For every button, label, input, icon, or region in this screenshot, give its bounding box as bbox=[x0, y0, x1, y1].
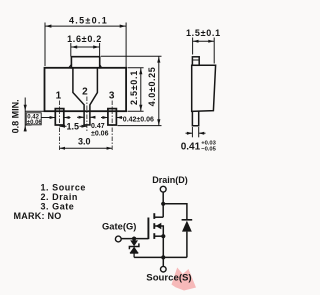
svg-text:1. Source: 1. Source bbox=[41, 182, 86, 192]
side view: body bbox=[192, 65, 216, 111]
svg-text:0.47: 0.47 bbox=[91, 123, 105, 130]
centerline lead 3 bbox=[111, 101, 113, 152]
side view: 1.5±0.1 dimension bbox=[193, 38, 215, 64]
svg-text:−0.05: −0.05 bbox=[201, 146, 216, 152]
svg-text:Drain(D): Drain(D) bbox=[152, 175, 188, 185]
svg-text:Gate(G): Gate(G) bbox=[102, 220, 136, 231]
side view: 0.41 dimension bbox=[186, 127, 206, 137]
svg-text:1: 1 bbox=[56, 90, 62, 101]
MOSFET source stub bbox=[154, 235, 163, 237]
body diode D1 bbox=[182, 219, 193, 221]
dimension 3.0 (lead span) bbox=[60, 147, 113, 149]
wire drain to diode branch bbox=[163, 204, 187, 220]
svg-text:3: 3 bbox=[109, 90, 115, 101]
side view: lead bbox=[192, 111, 198, 125]
MOSFET channel segments bbox=[153, 213, 155, 219]
node dot source rail bbox=[161, 255, 165, 259]
svg-text:±0.06: ±0.06 bbox=[91, 131, 109, 138]
svg-text:0.41: 0.41 bbox=[181, 142, 201, 153]
svg-text:MARK: NO: MARK: NO bbox=[14, 211, 62, 221]
svg-text:3.0: 3.0 bbox=[78, 136, 91, 146]
node dot gate bbox=[132, 237, 136, 241]
package front view: body outline bbox=[45, 68, 127, 111]
svg-text:1.6±0.2: 1.6±0.2 bbox=[67, 34, 102, 44]
dimension 2.5±0.1 (right inner) bbox=[128, 68, 144, 111]
tab base flare left bbox=[69, 65, 72, 68]
label 0.42±0.06 (lead1, boxed) bbox=[26, 113, 41, 125]
package front view: top tab bbox=[71, 57, 99, 68]
wire rail to source terminal bbox=[162, 258, 164, 266]
svg-text:2. Drain: 2. Drain bbox=[41, 192, 78, 202]
wire drain down bbox=[162, 192, 164, 217]
lead2 tip bbox=[84, 124, 90, 126]
MOSFET Q1: drain stub bbox=[154, 216, 163, 218]
svg-text:1.5±0.1: 1.5±0.1 bbox=[186, 28, 221, 38]
centerline lead 2 bbox=[86, 97, 88, 132]
svg-text:2.5±0.1: 2.5±0.1 bbox=[129, 70, 139, 105]
svg-text:Source(S): Source(S) bbox=[146, 272, 191, 283]
source rail bbox=[134, 256, 187, 258]
source terminal bbox=[161, 266, 167, 272]
lead 3 bbox=[108, 109, 117, 125]
svg-text:4.5±0.1: 4.5±0.1 bbox=[69, 15, 108, 25]
centerline lead 1 bbox=[59, 101, 61, 152]
lead 1 bbox=[55, 109, 64, 125]
node dot drain bbox=[161, 202, 165, 206]
dimension 4.0±0.25 (right outer) bbox=[101, 56, 162, 125]
gate terminal bbox=[115, 236, 121, 242]
MOSFET body stub with arrow bbox=[154, 226, 163, 236]
wire diode to source rail bbox=[186, 232, 188, 258]
svg-text:1.5: 1.5 bbox=[67, 122, 80, 132]
zener pair gate-source bbox=[133, 239, 135, 241]
MOSFET gate bar bbox=[147, 218, 149, 240]
svg-text:±0.06: ±0.06 bbox=[27, 120, 43, 126]
lead2 funnel inside body bbox=[73, 68, 84, 125]
svg-text:0.8 MIN.: 0.8 MIN. bbox=[11, 99, 21, 133]
wire source down bbox=[162, 236, 164, 257]
dimension 1.5 (lead pitch) bbox=[60, 125, 88, 127]
pink highlight arrow bbox=[172, 268, 197, 291]
svg-text:4.0±0.25: 4.0±0.25 bbox=[147, 67, 157, 107]
dimension 4.5±0.1 bbox=[45, 23, 126, 68]
gate wire bbox=[121, 238, 148, 240]
tab base flare right bbox=[100, 65, 102, 68]
dimension 1.6±0.2 bbox=[71, 43, 100, 57]
svg-text:0.42±0.06: 0.42±0.06 bbox=[123, 116, 154, 123]
dimension 0.8 MIN (left) bbox=[25, 98, 44, 132]
drain terminal bbox=[160, 186, 166, 192]
svg-text:2: 2 bbox=[82, 87, 88, 98]
node dot source stub bbox=[161, 234, 165, 238]
side view: tab bbox=[192, 57, 216, 126]
